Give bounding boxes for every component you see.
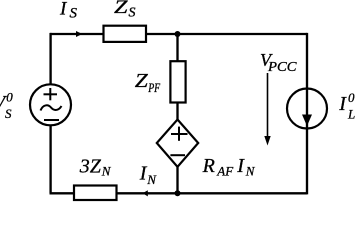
voltage source VS0 (circle) (30, 84, 71, 125)
svg-text:L: L (347, 107, 355, 122)
voltage source minus sign (44, 119, 59, 121)
svg-text:Z: Z (114, 0, 128, 18)
svg-text:R: R (202, 155, 215, 177)
current source IL0 (circle) (287, 89, 327, 129)
wire middle branch lower (diamond to node B) (176, 166, 178, 193)
wire bottom-left horizontal (corner to 3ZN) (50, 192, 75, 194)
svg-text:I: I (59, 0, 68, 20)
wire middle branch upper (node A to ZPF) (176, 34, 178, 62)
svg-text:S: S (5, 106, 12, 121)
voltage source sine tilde (41, 105, 62, 110)
svg-text:Z: Z (135, 70, 149, 92)
voltage source plus sign (44, 88, 58, 100)
svg-text:N: N (245, 164, 256, 179)
current source arrowhead (302, 115, 312, 127)
wire left vertical upper (corner to VS source) (49, 33, 51, 85)
node A (junction dot top) (175, 31, 181, 37)
wire top-right horizontal (ZS to right corner) (146, 33, 307, 35)
dependent source RAF-IN (diamond) (157, 120, 198, 167)
diamond minus sign (170, 154, 185, 156)
svg-text:3Z: 3Z (79, 156, 102, 178)
svg-text:AF: AF (216, 164, 234, 179)
svg-text:I: I (338, 93, 347, 115)
svg-text:S: S (70, 6, 78, 22)
node B (junction dot bottom) (175, 190, 181, 196)
wire bottom-right horizontal (3ZN to right corner) (117, 192, 308, 194)
svg-text:0: 0 (6, 90, 13, 105)
impedance ZPF (box) (170, 61, 185, 102)
wire middle branch mid (ZPF to diamond) (176, 102, 178, 120)
svg-text:PF: PF (147, 80, 161, 95)
arrow IN on bottom wire (pointing left) (143, 190, 148, 196)
svg-text:PCC: PCC (267, 59, 298, 74)
svg-text:0: 0 (348, 90, 355, 105)
svg-text:N: N (101, 164, 112, 179)
svg-text:I: I (236, 155, 245, 177)
arrow IS on top wire (76, 31, 82, 37)
svg-text:S: S (129, 5, 136, 20)
impedance ZS (box) (104, 26, 147, 42)
wire right vertical (306, 33, 308, 195)
wire left vertical lower (VS source to bottom corner) (49, 125, 51, 193)
arrow VPCC (voltage reference, pointing down) (267, 73, 269, 138)
wire top-left horizontal (VS to ZS) (50, 33, 104, 35)
impedance 3ZN (box) (74, 186, 117, 201)
diamond plus sign (171, 127, 188, 141)
svg-text:N: N (146, 172, 157, 187)
